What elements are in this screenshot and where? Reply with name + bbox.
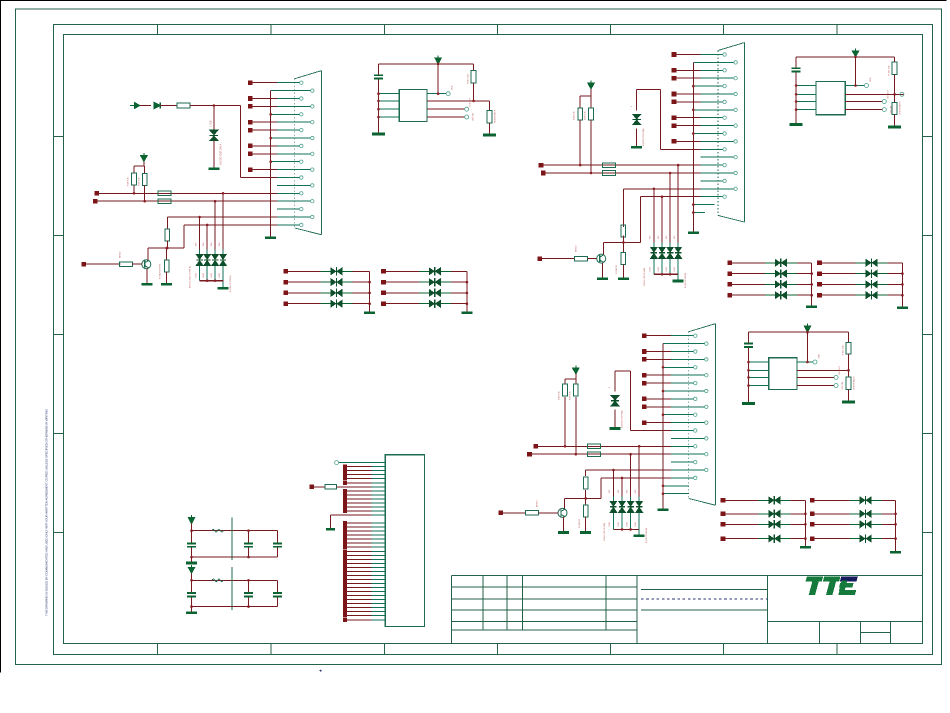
- svg-text:BF423: BF423: [537, 500, 539, 507]
- svg-text:R62: R62: [203, 243, 205, 246]
- svg-text:CLK OUT: CLK OUT: [470, 97, 472, 106]
- svg-text:BF423: BF423: [120, 251, 122, 258]
- svg-text:1 B02: 1 B02: [211, 273, 213, 278]
- svg-text:R62: R62: [195, 243, 197, 246]
- svg-text:VDD: VDD: [870, 77, 872, 82]
- svg-text:B (ZD4 CF25R B): B (ZD4 CF25R B): [230, 275, 232, 292]
- svg-text:B (ZD CF25R B): B (ZD CF25R B): [646, 527, 648, 543]
- svg-text:B (COD 7507 BB): B (COD 7507 BB): [643, 128, 645, 146]
- svg-text:R GB700: R GB700: [616, 264, 618, 274]
- svg-text:THIS DRAWING IS ISSUED BY COMM: THIS DRAWING IS ISSUED BY COMMUNICATED A…: [45, 408, 49, 616]
- svg-text:1 B02: 1 B02: [195, 273, 197, 278]
- svg-text:R62: R62: [666, 236, 668, 239]
- svg-text:R GB700: R GB700: [579, 518, 581, 528]
- svg-text:R62: R62: [658, 236, 660, 239]
- svg-text:R29 8.2k: R29 8.2k: [585, 110, 587, 120]
- svg-text:R28 8.2k: R28 8.2k: [574, 110, 576, 120]
- svg-text:R 4k7 10k: R 4k7 10k: [468, 73, 470, 84]
- svg-text:B (ZD CF25R B): B (ZD CF25R B): [685, 272, 687, 288]
- svg-text:R39 8.2k: R39 8.2k: [569, 390, 571, 400]
- svg-text:OSC 4M: OSC 4M: [473, 113, 475, 121]
- svg-text:R62: R62: [635, 490, 637, 493]
- svg-text:R62: R62: [674, 236, 676, 239]
- svg-text:R 4k7 10k: R 4k7 10k: [843, 344, 845, 355]
- svg-text:CLK OUT: CLK OUT: [839, 365, 841, 374]
- svg-text:RGB7R BA7.8: RGB7R BA7.8: [493, 109, 496, 123]
- svg-text:1 B02: 1 B02: [666, 267, 668, 272]
- svg-text:1 B02: 1 B02: [674, 267, 676, 272]
- svg-text:RGB7R BA7.8: RGB7R BA7.8: [853, 376, 856, 390]
- svg-text:B (COD 7507 DA) 4: B (COD 7507 DA) 4: [220, 143, 223, 165]
- svg-text:N RG2 (ZD CF25R): N RG2 (ZD CF25R): [644, 267, 646, 286]
- svg-text:1 B02: 1 B02: [219, 273, 221, 278]
- svg-text:VDD: VDD: [819, 353, 821, 358]
- svg-text:R62: R62: [211, 243, 213, 246]
- svg-text:1 R16: 1 R16: [210, 120, 213, 127]
- svg-text:BF423: BF423: [576, 245, 578, 252]
- svg-text:RGB7R BA7.8: RGB7R BA7.8: [899, 101, 902, 115]
- svg-text:R62: R62: [219, 243, 221, 246]
- svg-text:R62: R62: [650, 236, 652, 239]
- svg-text:1 B02: 1 B02: [650, 267, 652, 272]
- svg-text:1 B02: 1 B02: [626, 522, 628, 527]
- svg-text:N RG2 (ZD CF25R): N RG2 (ZD CF25R): [604, 522, 606, 541]
- svg-text:R62: R62: [609, 490, 611, 493]
- svg-text:1 B02: 1 B02: [609, 522, 611, 527]
- svg-text:R GB700 R7R6: R GB700 R7R6: [160, 263, 162, 279]
- svg-text:IN RG2 (ZD4 CF25R B): IN RG2 (ZD4 CF25R B): [190, 266, 192, 288]
- svg-text:CLK OUT: CLK OUT: [887, 90, 889, 99]
- svg-text:1 B02: 1 B02: [658, 267, 660, 272]
- svg-text:R 4k7 10k: R 4k7 10k: [889, 65, 891, 76]
- svg-text:R18 8.2k: R18 8.2k: [128, 176, 130, 186]
- svg-text:B (COD 7507 BB): B (COD 7507 BB): [622, 410, 624, 428]
- svg-text:OSC 4M: OSC 4M: [842, 381, 844, 389]
- svg-text:VDD: VDD: [452, 85, 454, 90]
- svg-text:1 B02: 1 B02: [203, 273, 205, 278]
- svg-text:1 B02: 1 B02: [635, 522, 637, 527]
- svg-text:R62: R62: [626, 490, 628, 493]
- svg-text:R62: R62: [618, 490, 620, 493]
- svg-text:R19 8.2k: R19 8.2k: [139, 176, 141, 186]
- svg-text:1 B02: 1 B02: [618, 522, 620, 527]
- svg-text:R38 8.2k: R38 8.2k: [559, 390, 561, 400]
